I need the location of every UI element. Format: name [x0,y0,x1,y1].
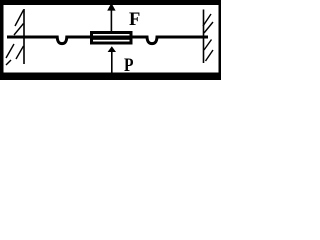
svg-text:P: P [124,55,133,76]
svg-text:F: F [129,10,140,30]
